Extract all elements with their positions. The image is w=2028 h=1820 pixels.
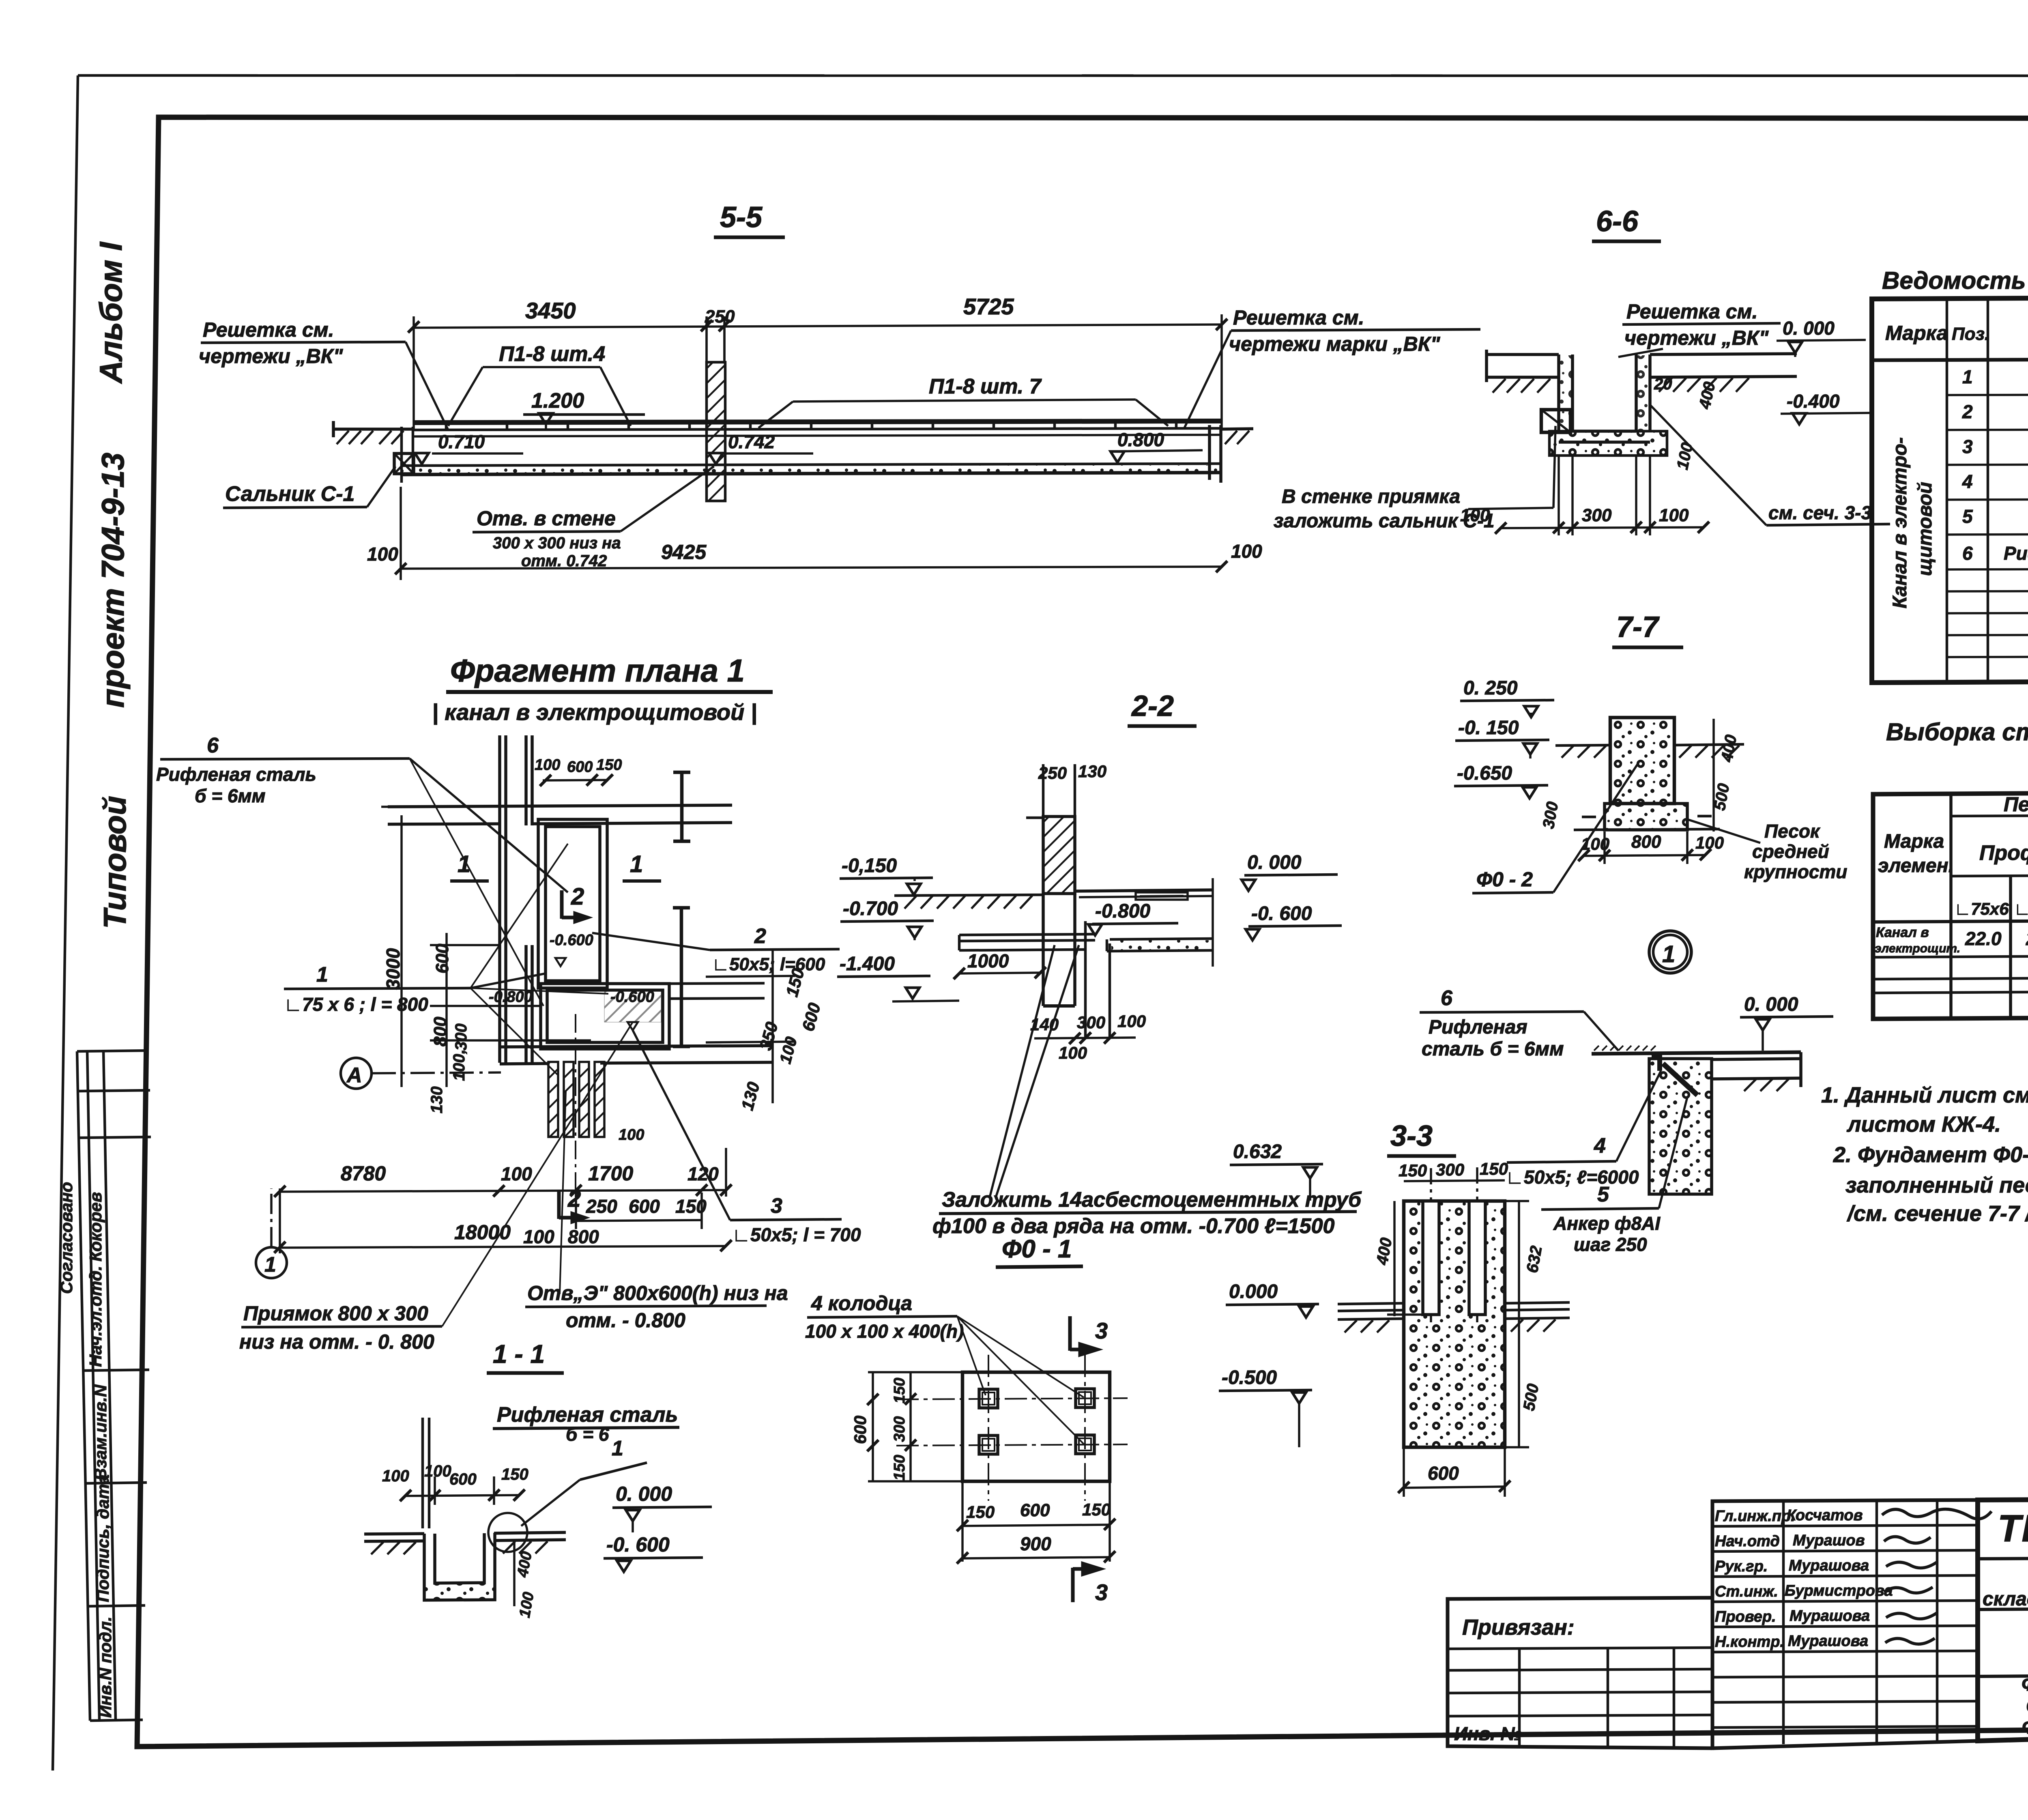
svg-text:чертежи „ВК": чертежи „ВК" bbox=[1624, 327, 1769, 349]
wall column hatched bbox=[1043, 817, 1075, 894]
signatures squiggles bbox=[1882, 1509, 1991, 1644]
svg-text:Решетка см.: Решетка см. bbox=[1233, 306, 1364, 329]
svg-text:600: 600 bbox=[1020, 1500, 1050, 1520]
svg-text:∟50х5; ℓ=6000: ∟50х5; ℓ=6000 bbox=[1506, 1167, 1639, 1188]
svg-text:3450: 3450 bbox=[525, 298, 576, 323]
svg-text:2-2: 2-2 bbox=[1131, 690, 1174, 722]
svg-text:Отв„Э" 800х600(h) низ на: Отв„Э" 800х600(h) низ на bbox=[527, 1282, 788, 1304]
svg-text:100: 100 bbox=[1117, 1012, 1146, 1031]
svg-text:6: 6 bbox=[207, 734, 219, 757]
svg-text:Мурашов: Мурашов bbox=[1793, 1532, 1865, 1549]
svg-text:0. 000: 0. 000 bbox=[1783, 318, 1835, 339]
svg-text:б = 6мм: б = 6мм bbox=[195, 785, 266, 806]
svg-text:400: 400 bbox=[1373, 1236, 1395, 1266]
svg-text:20: 20 bbox=[1654, 375, 1672, 393]
wall above ground thin bbox=[1026, 764, 1075, 818]
fragment plana 1 bbox=[156, 653, 861, 1353]
svg-text:150: 150 bbox=[1480, 1159, 1508, 1178]
svg-text:-1.400: -1.400 bbox=[840, 953, 895, 975]
pit floor slab left (buried channel) bbox=[959, 934, 1095, 950]
main outline bbox=[1978, 1498, 2028, 1741]
svg-text:1: 1 bbox=[1962, 366, 1973, 387]
ground hatch bbox=[1493, 378, 1749, 393]
table2 horizontals bbox=[1873, 814, 2028, 993]
svg-text:Песок: Песок bbox=[1764, 821, 1821, 842]
svg-text:3000: 3000 bbox=[382, 948, 404, 990]
svg-text:Мурашова: Мурашова bbox=[1788, 1633, 1868, 1650]
bottom dimension 9425 bbox=[401, 487, 1222, 580]
svg-text:100: 100 bbox=[523, 1226, 554, 1247]
svg-text:Типовой: Типовой bbox=[97, 796, 133, 929]
right wall and ground bbox=[1209, 425, 1253, 483]
right dim bbox=[1712, 719, 1715, 832]
svg-text:7-7: 7-7 bbox=[1616, 611, 1660, 643]
svg-text:-0.400: -0.400 bbox=[1787, 391, 1840, 412]
svg-text:Сальник С-1: Сальник С-1 bbox=[225, 482, 354, 506]
table: Vedomost sterzhney bbox=[1872, 267, 2028, 683]
section 3-3 bbox=[1387, 986, 1833, 1255]
pit walls with concrete dots bbox=[1559, 355, 1650, 442]
svg-text:-0. 150: -0. 150 bbox=[1458, 717, 1519, 739]
dimension slash ticks bbox=[274, 319, 1711, 1564]
svg-text:2. Фундамент Ф0-2 устанавлива: 2. Фундамент Ф0-2 устанавливать в приямо… bbox=[1833, 1143, 2028, 1167]
svg-text:100: 100 bbox=[367, 544, 398, 565]
svg-text:150: 150 bbox=[1082, 1500, 1111, 1519]
svg-text:Поз.: Поз. bbox=[1952, 324, 1989, 344]
table: Vyborka stali bbox=[1873, 718, 2028, 1019]
svg-text:Гл.инж.пр.: Гл.инж.пр. bbox=[1715, 1508, 1795, 1525]
svg-text:2: 2 bbox=[1962, 401, 1973, 422]
svg-text:сталь б = 6мм: сталь б = 6мм bbox=[1422, 1038, 1564, 1060]
svg-text:Марка: Марка bbox=[1884, 831, 1944, 852]
svg-text:Взам.инв.N: Взам.инв.N bbox=[91, 1384, 110, 1480]
anchor wells inside bbox=[1423, 1201, 1485, 1315]
svg-text:3: 3 bbox=[1095, 1318, 1108, 1343]
svg-text:9425: 9425 bbox=[661, 541, 707, 563]
svg-text:6-6: 6-6 bbox=[1596, 205, 1639, 238]
top horizontal wall bbox=[388, 805, 732, 824]
svg-text:Рифленая сталь б=6: Рифленая сталь б=6 bbox=[2004, 543, 2028, 564]
svg-text:0.742: 0.742 bbox=[728, 431, 775, 452]
svg-text:4 колодца: 4 колодца bbox=[811, 1292, 912, 1315]
rows bbox=[1962, 364, 2028, 564]
svg-text:крупности: крупности bbox=[1744, 861, 1847, 882]
svg-text:Провер.: Провер. bbox=[1715, 1608, 1776, 1625]
svg-text:1.200: 1.200 bbox=[531, 389, 584, 413]
column below bbox=[1649, 1059, 1712, 1194]
svg-text:Перекрытие: Перекрытие bbox=[2004, 793, 2028, 816]
svg-text:см. сеч. 3-3: см. сеч. 3-3 bbox=[1768, 502, 1871, 523]
svg-text:листом КЖ-4.: листом КЖ-4. bbox=[1846, 1112, 2001, 1137]
notes list bbox=[1821, 1083, 2028, 1226]
svg-text:∟75 х 6 ; l = 800: ∟75 х 6 ; l = 800 bbox=[284, 994, 428, 1015]
svg-text:5: 5 bbox=[1962, 506, 1973, 527]
plan rect bbox=[962, 1372, 1110, 1481]
svg-text:150: 150 bbox=[596, 756, 622, 774]
svg-text:500: 500 bbox=[1520, 1382, 1542, 1412]
svg-text:Канал в электро-: Канал в электро- bbox=[1889, 437, 1911, 608]
svg-text:/см. сечение 7-7 /.: /см. сечение 7-7 /. bbox=[1847, 1201, 2028, 1226]
svg-text:| канал в электрощитовой |: | канал в электрощитовой | bbox=[432, 699, 757, 725]
svg-text:5: 5 bbox=[1597, 1183, 1609, 1206]
svg-text:300: 300 bbox=[1540, 800, 1562, 830]
vertical wall bbox=[500, 735, 532, 1063]
svg-text:6: 6 bbox=[1441, 986, 1453, 1010]
svg-text:ТП 704-9-13 -КЖ: ТП 704-9-13 -КЖ bbox=[1998, 1507, 2028, 1549]
svg-text:100: 100 bbox=[501, 1163, 532, 1184]
svg-text:600: 600 bbox=[851, 1416, 870, 1444]
svg-text:-0.800: -0.800 bbox=[1095, 900, 1150, 922]
svg-text:22.0: 22.0 bbox=[1965, 928, 2002, 949]
svg-text:∟50х5: ∟50х5 bbox=[2014, 899, 2028, 918]
foundation FO-1 plan bbox=[805, 1235, 1128, 1605]
svg-text:Инв. №: Инв. № bbox=[1454, 1723, 1522, 1744]
svg-text:шаг 250: шаг 250 bbox=[1574, 1234, 1647, 1255]
salnik box in pit wall bbox=[1541, 410, 1570, 432]
svg-text:Заложить 14асбестоцементных т: Заложить 14асбестоцементных труб bbox=[942, 1188, 1362, 1212]
svg-text:100: 100 bbox=[1460, 505, 1490, 525]
svg-text:350: 350 bbox=[756, 1020, 782, 1052]
svg-text:4: 4 bbox=[1594, 1134, 1606, 1158]
svg-text:1: 1 bbox=[458, 851, 470, 877]
svg-text:Кокорев: Кокорев bbox=[86, 1192, 105, 1261]
svg-text:3: 3 bbox=[771, 1194, 782, 1218]
svg-text:1000: 1000 bbox=[967, 950, 1009, 971]
wall above bbox=[423, 1418, 429, 1528]
left dim chain bbox=[381, 807, 591, 1087]
svg-text:600: 600 bbox=[1428, 1463, 1459, 1484]
section 5-5 bbox=[199, 201, 1480, 580]
svg-text:900: 900 bbox=[1020, 1533, 1051, 1554]
svg-text:Выборка стали на один элем: Выборка стали на один элемент , кг bbox=[1886, 718, 2028, 746]
svg-text:Ф0 - 2: Ф0 - 2 bbox=[1476, 868, 1533, 891]
svg-text:Мурашова: Мурашова bbox=[1789, 1557, 1869, 1574]
svg-text:400: 400 bbox=[514, 1550, 535, 1579]
svg-text:Рук.гр.: Рук.гр. bbox=[1715, 1558, 1768, 1575]
svg-text:100: 100 bbox=[535, 756, 560, 774]
svg-text:600: 600 bbox=[629, 1196, 660, 1217]
crossing leader thin lines bbox=[410, 759, 608, 1075]
channel bottom slab bbox=[402, 464, 1221, 475]
svg-text:электрощит.: электрощит. bbox=[1875, 942, 1960, 955]
svg-text:100: 100 bbox=[382, 1467, 409, 1485]
I-beam right lower bbox=[673, 908, 690, 1046]
svg-text:150: 150 bbox=[1399, 1161, 1427, 1180]
svg-text:Альбом I: Альбом I bbox=[93, 242, 129, 384]
svg-text:заполненный песком средней: заполненный песком средней крупности bbox=[1845, 1173, 2028, 1197]
svg-text:отм. - 0.800: отм. - 0.800 bbox=[566, 1309, 685, 1332]
svg-text:-0.600: -0.600 bbox=[550, 932, 593, 949]
svg-text:ф100 в два ряда на отм. -0.70: ф100 в два ряда на отм. -0.700 ℓ=1500 bbox=[932, 1214, 1335, 1238]
I-beam top right bbox=[673, 772, 690, 841]
svg-text:Ведомость стержней на один: Ведомость стержней на один элемент bbox=[1882, 267, 2028, 294]
svg-text:300: 300 bbox=[891, 1416, 908, 1442]
svg-text:300: 300 bbox=[1436, 1160, 1464, 1179]
axis A circle bbox=[341, 1058, 372, 1089]
svg-text:6: 6 bbox=[1962, 543, 1973, 564]
svg-text:0. 000: 0. 000 bbox=[616, 1483, 672, 1505]
svg-text:чертежи марки „ВК": чертежи марки „ВК" bbox=[1229, 333, 1441, 355]
svg-text:1 - 1: 1 - 1 bbox=[493, 1339, 545, 1369]
svg-text:150: 150 bbox=[966, 1502, 995, 1521]
pit side walls right of wall bbox=[1085, 921, 1110, 1037]
floor slabs left/right bbox=[1338, 1302, 1570, 1319]
svg-text:Ст.инж.: Ст.инж. bbox=[1715, 1583, 1778, 1600]
main block lines bbox=[1978, 1556, 2028, 1733]
svg-text:Косчатов: Косчатов bbox=[1787, 1507, 1863, 1524]
svg-text:склада нефтепродуктов емк. 1т: склада нефтепродуктов емк. 1тыс. куб. м. bbox=[1983, 1588, 2028, 1610]
pit (priyamok) extension right bbox=[541, 984, 669, 1049]
floor right of wall 0.000 bbox=[1075, 890, 1213, 897]
ground level left + hatch bbox=[333, 421, 413, 437]
svg-text:100: 100 bbox=[516, 1591, 537, 1619]
wall below ground bbox=[1043, 894, 1075, 1006]
svg-text:∟50х5; l = 700: ∟50х5; l = 700 bbox=[732, 1224, 861, 1245]
section mark 3 bottom bbox=[1073, 1564, 1100, 1602]
svg-text:-0.600: -0.600 bbox=[610, 988, 654, 1006]
svg-text:элемен.: элемен. bbox=[1878, 855, 1954, 877]
svg-text:В стенке приямка: В стенке приямка bbox=[1282, 486, 1460, 507]
svg-text:∟50х5; l=600: ∟50х5; l=600 bbox=[712, 954, 825, 974]
section 6-6 bbox=[1274, 205, 1890, 535]
svg-text:Рифленая сталь: Рифленая сталь bbox=[497, 1403, 678, 1427]
svg-text:0.632: 0.632 bbox=[1233, 1141, 1282, 1162]
svg-text:100,: 100, bbox=[450, 1049, 468, 1081]
svg-text:600: 600 bbox=[567, 759, 593, 776]
svg-text:1700: 1700 bbox=[588, 1162, 633, 1185]
svg-text:средней: средней bbox=[1752, 841, 1829, 862]
svg-text:Привязан:: Привязан: bbox=[1462, 1615, 1575, 1640]
svg-text:Решетка см.: Решетка см. bbox=[1626, 300, 1758, 323]
svg-text:Мурашова: Мурашова bbox=[1790, 1607, 1870, 1624]
svg-text:300: 300 bbox=[1077, 1013, 1105, 1032]
svg-text:Марка: Марка bbox=[1885, 322, 1948, 344]
svg-text:1: 1 bbox=[612, 1437, 623, 1460]
svg-text:-0.650: -0.650 bbox=[1457, 763, 1512, 784]
svg-text:Решетка см.: Решетка см. bbox=[203, 318, 334, 341]
svg-text:3: 3 bbox=[1095, 1579, 1108, 1605]
svg-text:0. 250: 0. 250 bbox=[1463, 677, 1518, 699]
column in the middle (hatched) bbox=[707, 362, 725, 501]
section mark 3 top bbox=[1070, 1316, 1097, 1355]
svg-text:Подпись, дата: Подпись, дата bbox=[93, 1474, 112, 1602]
svg-text:250: 250 bbox=[1038, 763, 1067, 782]
svg-text:250: 250 bbox=[586, 1196, 617, 1217]
svg-text:Канал в: Канал в bbox=[1876, 925, 1929, 940]
svg-text:300: 300 bbox=[1582, 505, 1612, 525]
svg-text:100: 100 bbox=[1059, 1043, 1087, 1062]
svg-text:Сечения 5-5÷7-7: Сечения 5-5÷7-7 bbox=[2026, 1695, 2028, 1717]
axis 1 circle bbox=[256, 1247, 287, 1278]
channel left wall bbox=[402, 427, 413, 483]
svg-text:130: 130 bbox=[428, 1086, 446, 1113]
svg-text:-0. 600: -0. 600 bbox=[606, 1533, 670, 1556]
svg-text:100: 100 bbox=[619, 1126, 644, 1143]
svg-text:400: 400 bbox=[1696, 380, 1719, 410]
svg-text:800: 800 bbox=[1631, 832, 1661, 852]
svg-text:проект 704-9-13: проект 704-9-13 bbox=[95, 453, 131, 708]
svg-text:4: 4 bbox=[1962, 471, 1973, 492]
svg-text:100: 100 bbox=[776, 1035, 801, 1066]
svg-text:5-5: 5-5 bbox=[720, 201, 763, 234]
privyazan table bbox=[1448, 1598, 1712, 1748]
svg-text:П1-8 шт. 7: П1-8 шт. 7 bbox=[929, 375, 1042, 398]
svg-text:А: А bbox=[346, 1064, 362, 1087]
svg-text:Приямок 800 х 300: Приямок 800 х 300 bbox=[243, 1302, 428, 1325]
table2 verticals bbox=[1951, 792, 2028, 1019]
right break line bbox=[1212, 878, 1214, 967]
svg-text:0.710: 0.710 bbox=[438, 431, 485, 452]
slab left/right bbox=[1487, 350, 1797, 382]
channel rectangle (kanal) bbox=[538, 819, 607, 988]
svg-text:100: 100 bbox=[424, 1462, 451, 1480]
svg-text:600: 600 bbox=[432, 943, 452, 973]
svg-text:Нач.эл.отд.: Нач.эл.отд. bbox=[86, 1266, 105, 1367]
svg-text:3-3: 3-3 bbox=[1390, 1120, 1433, 1152]
corner angle + anchor bbox=[1652, 1055, 1662, 1071]
foundation FO-1 column section bbox=[1219, 1141, 1570, 1497]
svg-text:Н.контр.: Н.контр. bbox=[1715, 1633, 1784, 1650]
section 7-7 bbox=[1454, 611, 1847, 893]
svg-text:-0.700: -0.700 bbox=[843, 898, 898, 920]
ground lines + hatch bbox=[1555, 744, 1744, 746]
svg-text:Инв.N подл.: Инв.N подл. bbox=[96, 1616, 115, 1718]
svg-text:100 х 100 х 400(h): 100 х 100 х 400(h) bbox=[805, 1321, 964, 1342]
svg-text:130: 130 bbox=[737, 1080, 763, 1112]
lower floor right at -0.600 bbox=[1107, 939, 1213, 951]
svg-text:2: 2 bbox=[571, 883, 584, 910]
section 1-1 bbox=[364, 1339, 712, 1619]
svg-text:18000: 18000 bbox=[454, 1221, 511, 1244]
svg-text:0. 000: 0. 000 bbox=[1744, 994, 1798, 1015]
svg-text:600: 600 bbox=[449, 1470, 477, 1488]
svg-text:Нач.отд: Нач.отд bbox=[1715, 1533, 1780, 1550]
signature table bbox=[1712, 1500, 1991, 1748]
svg-text:100: 100 bbox=[1659, 505, 1689, 525]
svg-text:Профильная сталь: Профильная сталь bbox=[1979, 841, 2028, 865]
detail circle bbox=[488, 1513, 527, 1552]
left margin stamp table bbox=[77, 1051, 151, 1721]
svg-text:Анкер ф8АI: Анкер ф8АI bbox=[1553, 1213, 1661, 1234]
svg-text:0. 000: 0. 000 bbox=[1247, 852, 1302, 873]
slab right bbox=[1712, 1052, 1801, 1087]
svg-text:-0.500: -0.500 bbox=[1222, 1367, 1277, 1388]
sand line below footing bbox=[1574, 829, 1720, 830]
centerlines bbox=[896, 1355, 1128, 1501]
svg-text:150: 150 bbox=[891, 1378, 908, 1403]
floor lines bbox=[364, 1532, 566, 1541]
svg-text:100: 100 bbox=[1231, 541, 1262, 562]
svg-text:3: 3 bbox=[1962, 436, 1973, 457]
column with dots bbox=[1610, 718, 1674, 804]
svg-text:1. Данный лист смотреть со: 1. Данный лист смотреть совместно с bbox=[1821, 1083, 2028, 1107]
svg-text:-0. 600: -0. 600 bbox=[1251, 903, 1312, 924]
svg-text:Согласовано: Согласовано bbox=[57, 1182, 76, 1294]
asbestos pipes bbox=[548, 1062, 604, 1137]
svg-text:Бурмистрова: Бурмистрова bbox=[1785, 1582, 1893, 1599]
svg-text:300 х 300 низ на: 300 х 300 низ на bbox=[493, 534, 621, 552]
bottom horizontal wall bbox=[500, 1046, 773, 1064]
svg-text:0.000: 0.000 bbox=[1229, 1281, 1278, 1302]
svg-text:Фрагмент плана 1: Фрагмент плана 1 bbox=[450, 653, 745, 688]
svg-text:чертежи „ВК": чертежи „ВК" bbox=[199, 345, 344, 367]
svg-text:Рифленая: Рифленая bbox=[1429, 1016, 1527, 1038]
svg-text:400: 400 bbox=[1718, 733, 1740, 763]
riffled plate bbox=[1592, 1052, 1801, 1054]
section 2-2 bbox=[837, 690, 1362, 1238]
svg-text:0.800: 0.800 bbox=[1117, 429, 1164, 450]
gland box (salnik) bbox=[394, 453, 414, 474]
svg-text:Отв. в стене: Отв. в стене bbox=[477, 507, 616, 530]
svg-text:∟75х6: ∟75х6 bbox=[1954, 899, 2009, 918]
top dimension line bbox=[414, 314, 1222, 429]
svg-text:600: 600 bbox=[798, 1001, 824, 1033]
svg-text:27.5: 27.5 bbox=[2026, 928, 2028, 949]
svg-text:щитовой: щитовой bbox=[1914, 482, 1936, 576]
left margin rotated project title bbox=[93, 242, 133, 929]
svg-text:низ на отм. - 0. 800: низ на отм. - 0. 800 bbox=[239, 1330, 434, 1353]
svg-text:8780: 8780 bbox=[341, 1162, 386, 1185]
title block bbox=[1978, 1498, 2028, 1741]
svg-text:1: 1 bbox=[316, 963, 328, 986]
svg-text:100: 100 bbox=[1674, 441, 1697, 471]
floor slab top (channel cover) bbox=[413, 421, 1221, 436]
svg-text:120: 120 bbox=[687, 1163, 719, 1184]
svg-text:1: 1 bbox=[264, 1253, 276, 1276]
svg-text:1: 1 bbox=[1662, 941, 1675, 967]
svg-text:5725: 5725 bbox=[963, 294, 1014, 319]
svg-text:б = 6: б = 6 bbox=[566, 1424, 609, 1445]
svg-text:-0,150: -0,150 bbox=[842, 855, 897, 877]
channel U-shape bbox=[424, 1533, 495, 1600]
svg-text:2: 2 bbox=[754, 924, 766, 948]
svg-text:Ф0 - 1: Ф0 - 1 bbox=[1002, 1235, 1072, 1263]
svg-text:1: 1 bbox=[630, 851, 643, 877]
svg-text:632: 632 bbox=[1523, 1244, 1546, 1274]
svg-text:П1-8 шт.4: П1-8 шт.4 bbox=[499, 342, 605, 366]
svg-text:800: 800 bbox=[430, 1016, 450, 1046]
4 wells bbox=[979, 1389, 1094, 1454]
svg-text:130: 130 bbox=[1078, 762, 1106, 781]
svg-text:Фрагмент плана 1: Фрагмент плана 1 bbox=[2022, 1674, 2028, 1695]
svg-text:800: 800 bbox=[568, 1226, 599, 1247]
svg-text:Фундамент Ф0-1.: Фундамент Ф0-1. bbox=[2022, 1717, 2028, 1738]
svg-text:Рифленая сталь: Рифленая сталь bbox=[156, 764, 316, 785]
column bbox=[1404, 1201, 1505, 1447]
svg-text:150: 150 bbox=[891, 1455, 908, 1480]
ground line + hatch left of column bbox=[894, 895, 1043, 896]
svg-text:300: 300 bbox=[452, 1023, 470, 1051]
axis mark circled 1 near 7-7 bbox=[1649, 931, 1691, 973]
svg-text:150: 150 bbox=[501, 1465, 528, 1483]
